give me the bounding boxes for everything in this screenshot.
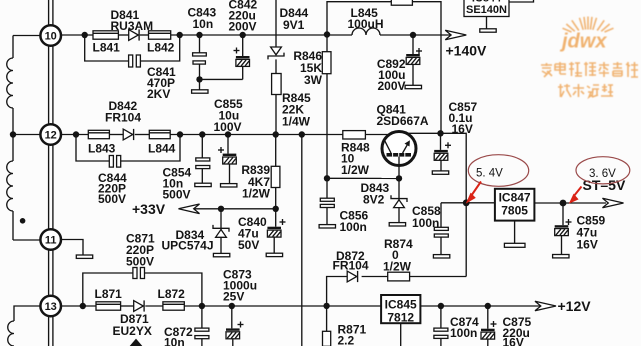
wire to +12V rail bbox=[327, 277, 348, 306]
junction C873 top bbox=[229, 303, 235, 309]
winding W2 bbox=[7, 135, 40, 241]
svg-text:10n: 10n bbox=[193, 17, 214, 31]
svg-text:200V: 200V bbox=[377, 79, 405, 93]
wire R846 down to base node bbox=[326, 74, 328, 179]
arrow ST-5V out bbox=[603, 198, 624, 208]
ground D843 bbox=[389, 223, 405, 226]
inductor L841 bbox=[93, 31, 121, 55]
resistor R871 bbox=[323, 306, 367, 346]
svg-text:100uH: 100uH bbox=[348, 17, 384, 31]
sunburst logo bbox=[563, 17, 614, 33]
snubber loop wire row12 bbox=[76, 135, 180, 162]
wire IC845 ground lead bbox=[400, 323, 402, 346]
svg-text:500V: 500V bbox=[163, 188, 191, 202]
ground C856 bbox=[319, 225, 335, 228]
wire row12 left bbox=[62, 134, 89, 136]
pin circle 13 bbox=[40, 296, 61, 317]
inductor L871 bbox=[95, 287, 123, 310]
ground C858 bbox=[433, 255, 449, 258]
svg-text:1/2W: 1/2W bbox=[341, 163, 370, 177]
wire R845 to row12 bbox=[275, 95, 277, 135]
svg-text:100n: 100n bbox=[412, 216, 439, 230]
chinese line1 家电维修杂志社 bbox=[541, 62, 638, 77]
wire C842 bottom link bbox=[200, 78, 243, 80]
svg-text:500V: 500V bbox=[126, 255, 154, 269]
ground C859 bbox=[553, 255, 569, 258]
wire row12 main bbox=[170, 134, 343, 136]
svg-text:13: 13 bbox=[45, 301, 57, 313]
wire R848 to Q841 base bbox=[365, 134, 389, 136]
svg-text:500V: 500V bbox=[98, 192, 126, 206]
svg-text:12: 12 bbox=[45, 130, 57, 142]
svg-text:7805: 7805 bbox=[501, 204, 528, 218]
ellipse note 3.6V bbox=[576, 157, 630, 184]
wire bbox=[52, 46, 54, 124]
regulator SE140N box bbox=[464, 0, 509, 17]
diode D872 bbox=[333, 249, 369, 282]
junction C856 top bbox=[324, 175, 330, 181]
chinese line2 技术论坛 bbox=[558, 84, 613, 97]
inductor L872 bbox=[158, 287, 186, 310]
svg-text:5. 4V: 5. 4V bbox=[476, 168, 503, 180]
wire core double line 11-13 bbox=[48, 250, 50, 296]
wire R846 upper bbox=[326, 35, 328, 52]
wire Q841 collector lead down bbox=[398, 157, 400, 179]
snubber loop wire row13 bbox=[83, 273, 202, 306]
ground pin11 bbox=[76, 255, 92, 258]
svg-text:3. 6V: 3. 6V bbox=[589, 168, 616, 180]
svg-text:L844: L844 bbox=[148, 142, 176, 156]
snubber loop wire row10 bbox=[85, 35, 180, 61]
junction C842 top bbox=[240, 32, 246, 38]
svg-text:IC847: IC847 bbox=[499, 191, 531, 205]
svg-text:1/2W: 1/2W bbox=[383, 260, 412, 274]
arrow +140V bbox=[445, 30, 487, 58]
ground C857 bbox=[432, 171, 448, 174]
pointer triangle D871 bbox=[130, 339, 143, 346]
wire pin11 to ground bbox=[62, 240, 84, 256]
capacitor C843 bbox=[188, 6, 217, 80]
svg-text:IC844: IC844 bbox=[472, 0, 502, 5]
zener D844 string wire bbox=[275, 0, 277, 47]
junction emitter node bbox=[437, 130, 443, 136]
junction 5.4V node bbox=[463, 199, 470, 206]
inductor L842 bbox=[147, 31, 175, 55]
diode D871 bbox=[113, 300, 152, 338]
svg-text:2SD667A: 2SD667A bbox=[377, 114, 429, 128]
capacitor C854 bbox=[163, 135, 210, 202]
capacitor C844 bbox=[98, 156, 127, 207]
svg-text:L872: L872 bbox=[158, 287, 186, 301]
ground C854 bbox=[195, 183, 211, 186]
svg-text:16V: 16V bbox=[577, 238, 598, 252]
inductor L843 bbox=[88, 130, 116, 155]
capacitor C842 bbox=[229, 0, 258, 79]
svg-text:100n: 100n bbox=[340, 220, 367, 234]
capacitor C857 bbox=[434, 100, 477, 171]
svg-text:100V: 100V bbox=[214, 120, 242, 134]
junction node B bbox=[177, 32, 183, 38]
wire bbox=[52, 317, 54, 346]
junction node E bbox=[80, 303, 86, 309]
capacitor C872 bbox=[164, 306, 209, 346]
regulator IC845 bbox=[381, 295, 420, 325]
ground D834 bbox=[213, 253, 229, 256]
svg-text:SE140N: SE140N bbox=[466, 4, 507, 16]
wire bbox=[410, 276, 467, 278]
capacitor C841 bbox=[129, 55, 176, 101]
wire feed top bbox=[412, 2, 441, 134]
red arrow to 5.4V node bbox=[466, 182, 481, 204]
junction R845/R839 row12 bbox=[273, 131, 279, 137]
junction C854 top bbox=[199, 131, 205, 137]
ground IC847 bbox=[504, 243, 525, 247]
transistor Q841 bbox=[377, 103, 429, 166]
junction C872 top bbox=[199, 303, 205, 309]
junction long line row12 bbox=[299, 131, 305, 137]
svg-text:25V: 25V bbox=[223, 290, 244, 304]
wire bbox=[52, 250, 54, 296]
wire R839 down bbox=[275, 188, 277, 209]
junction D834 top bbox=[218, 206, 224, 212]
capacitor C873 bbox=[223, 268, 257, 346]
arrow +12V bbox=[535, 298, 591, 314]
svg-text:IC845: IC845 bbox=[385, 298, 417, 312]
wire R839 upper bbox=[275, 135, 277, 167]
junction R846 row10 bbox=[324, 31, 330, 37]
capacitor C871 bbox=[126, 232, 155, 279]
junction dot winding W1/W2 bbox=[10, 131, 16, 137]
wire row13 left bbox=[62, 305, 97, 307]
zener D844 bbox=[268, 6, 309, 59]
wire core double line 10-12 bbox=[48, 46, 50, 124]
wire core double line top bbox=[48, 0, 50, 25]
zener D843 bbox=[361, 178, 408, 222]
wire IC847 ground lead bbox=[514, 221, 516, 244]
regulator IC847 bbox=[495, 189, 535, 221]
junction D843 node bbox=[396, 175, 402, 181]
svg-text:+12V: +12V bbox=[558, 298, 592, 314]
wire core double line 12-11 bbox=[48, 145, 50, 229]
wire bbox=[121, 305, 134, 307]
wire bbox=[140, 34, 149, 36]
svg-text:EU2YX: EU2YX bbox=[113, 324, 152, 338]
svg-text:100n: 100n bbox=[450, 326, 477, 340]
wire row10 main bbox=[171, 34, 352, 36]
svg-text:11: 11 bbox=[45, 235, 57, 247]
wire core double line below 13 bbox=[48, 317, 50, 346]
svg-text:3W: 3W bbox=[304, 73, 323, 87]
ground SE140N bbox=[480, 29, 496, 32]
junction node A bbox=[82, 32, 88, 38]
svg-text:2KV: 2KV bbox=[147, 87, 170, 101]
wire bbox=[275, 59, 277, 73]
wire emitter to regulator input bbox=[441, 133, 467, 203]
pin circle 11 bbox=[40, 229, 61, 250]
junction C874 top bbox=[438, 303, 444, 309]
svg-text:200V: 200V bbox=[229, 20, 257, 34]
capacitor C855 bbox=[214, 97, 244, 184]
junction node D bbox=[177, 131, 183, 137]
wire emitter bbox=[408, 132, 441, 134]
wire bbox=[135, 134, 150, 136]
wire to ground bbox=[199, 79, 201, 89]
svg-text:L841: L841 bbox=[93, 41, 121, 55]
svg-text:L843: L843 bbox=[88, 142, 116, 156]
diode D842 bbox=[105, 99, 141, 140]
junction node C bbox=[73, 131, 79, 137]
capacitor C856 bbox=[320, 178, 368, 234]
wire row10 right bbox=[380, 34, 450, 36]
junction C843 bottom bbox=[196, 76, 202, 82]
junction R871 node bbox=[323, 303, 329, 309]
zener D834 bbox=[162, 209, 230, 254]
inductor L845 bbox=[348, 6, 384, 35]
wire +12V rail out bbox=[420, 305, 540, 307]
resistor R874 bbox=[383, 237, 413, 281]
winding W1 bbox=[7, 36, 40, 135]
capacitor C858 bbox=[412, 203, 448, 255]
svg-text:FR104: FR104 bbox=[333, 259, 369, 273]
junction C855 top bbox=[225, 131, 231, 137]
capacitor C892 bbox=[377, 35, 422, 93]
wire bbox=[145, 305, 163, 307]
arrow +33V bbox=[132, 201, 200, 217]
svg-text:+33V: +33V bbox=[132, 201, 166, 217]
svg-text:UPC574J: UPC574J bbox=[162, 239, 214, 253]
svg-text:FR104: FR104 bbox=[105, 111, 141, 125]
svg-text:9V1: 9V1 bbox=[283, 18, 305, 32]
red arrow to ST5V node bbox=[569, 187, 582, 204]
resistor Rtop (cut) bbox=[391, 0, 412, 5]
ground C843 bbox=[192, 90, 208, 93]
svg-text:L871: L871 bbox=[95, 287, 123, 301]
svg-text:16V: 16V bbox=[503, 336, 524, 346]
svg-text:2.2: 2.2 bbox=[338, 334, 355, 346]
polarity dot W2 bbox=[20, 218, 26, 224]
node pin12 wire bbox=[13, 134, 40, 136]
junction R839/C840 bbox=[273, 206, 279, 212]
wire bbox=[362, 276, 388, 278]
ground C855 bbox=[221, 184, 237, 187]
pin circle 12 bbox=[40, 124, 61, 145]
svg-text:10n: 10n bbox=[164, 336, 185, 346]
capacitor C840 bbox=[238, 209, 286, 253]
wire +33V bbox=[194, 208, 276, 210]
svg-text:1/4W: 1/4W bbox=[282, 115, 311, 129]
wire 7805 input bbox=[441, 202, 495, 204]
svg-text:8V2: 8V2 bbox=[363, 193, 385, 207]
wire row13 main bbox=[184, 305, 381, 307]
junction ST5V node bbox=[560, 200, 567, 207]
wire bbox=[52, 0, 54, 25]
svg-text:L842: L842 bbox=[147, 41, 175, 55]
wire D843 node to C856 bbox=[327, 177, 399, 179]
resistor R845 bbox=[272, 74, 311, 129]
ellipse note 5.4V bbox=[468, 155, 528, 187]
svg-text:jdwx: jdwx bbox=[559, 31, 607, 53]
wire bbox=[52, 145, 54, 229]
wire long vertical line x301 bbox=[301, 135, 303, 346]
wire riser from 5.4V node bbox=[465, 203, 467, 277]
wire bbox=[118, 34, 128, 36]
svg-text:7812: 7812 bbox=[387, 311, 414, 325]
junction C892 top bbox=[410, 32, 416, 38]
wire 7805 output bbox=[534, 202, 606, 204]
inductor L844 bbox=[148, 130, 176, 155]
capacitor C859 bbox=[555, 203, 606, 255]
junction C875 top bbox=[485, 303, 491, 309]
winding W3 bbox=[8, 306, 40, 346]
svg-text:50V: 50V bbox=[238, 238, 259, 252]
ground C840 bbox=[266, 253, 282, 256]
resistor R839 bbox=[241, 163, 280, 201]
svg-text:1/2W: 1/2W bbox=[242, 187, 271, 201]
svg-text:+140V: +140V bbox=[446, 43, 488, 59]
capacitor C875 bbox=[481, 306, 532, 346]
ground C892 bbox=[405, 85, 421, 88]
svg-text:RU3AM: RU3AM bbox=[111, 19, 154, 33]
wire row10 bbox=[62, 34, 94, 36]
resistor R846 bbox=[293, 49, 331, 87]
resistor R848 bbox=[341, 131, 370, 177]
junction C843 top bbox=[196, 32, 202, 38]
diode D841 bbox=[111, 8, 154, 41]
feed riser R846 top bbox=[327, 2, 391, 35]
svg-text:10: 10 bbox=[45, 31, 57, 43]
wire bbox=[109, 134, 123, 136]
pin circle 10 bbox=[40, 25, 61, 46]
capacitor C874 bbox=[434, 306, 479, 346]
wire SE140N ground lead bbox=[486, 17, 488, 29]
wire SE140N right bbox=[509, 0, 534, 2]
